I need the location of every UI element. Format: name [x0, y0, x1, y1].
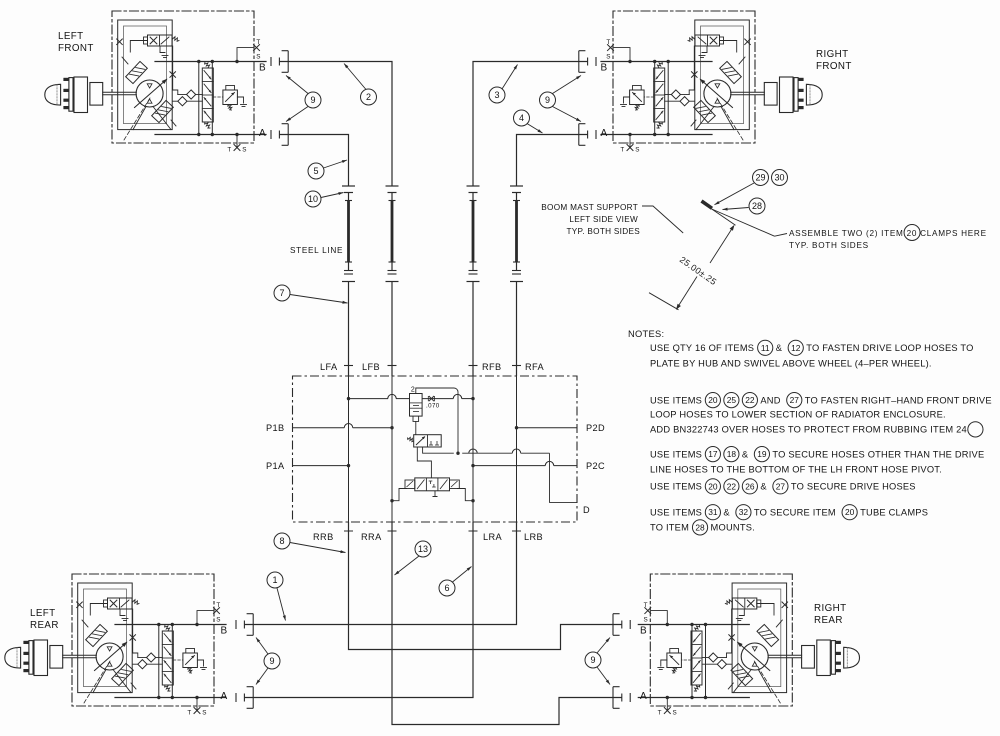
svg-text:A: A [259, 128, 266, 139]
svg-text:S: S [606, 54, 611, 61]
svg-text:TO ITEM: TO ITEM [650, 523, 689, 533]
main directional spool valve [415, 478, 450, 491]
svg-text:P1B: P1B [266, 423, 285, 433]
junction RFB charge [471, 397, 474, 400]
svg-text:USE ITEMS: USE ITEMS [650, 507, 702, 517]
svg-text:NOTES:: NOTES: [628, 329, 664, 339]
P2D line [517, 427, 578, 429]
svg-text:6: 6 [444, 583, 449, 593]
P1B line [293, 427, 345, 429]
callout 2 [361, 89, 377, 105]
steel line thick [347, 201, 350, 263]
svg-text:TO SECURE HOSES OTHER THAN THE: TO SECURE HOSES OTHER THAN THE DRIVE [772, 449, 984, 459]
callout 28 [749, 198, 765, 214]
svg-text:RRB: RRB [313, 532, 334, 542]
connector LF port B [271, 51, 288, 73]
svg-text:4: 4 [519, 113, 524, 123]
svg-text:LINE HOSES TO THE BOTTOM OF TH: LINE HOSES TO THE BOTTOM OF THE LH FRONT… [650, 464, 942, 474]
svg-text:27: 27 [790, 395, 800, 405]
LRA route to LR port A [245, 522, 473, 698]
svg-text:3: 3 [494, 90, 499, 100]
svg-text:B: B [221, 626, 228, 637]
svg-text:9: 9 [310, 95, 315, 105]
drop from pilot valve to main spool [417, 447, 431, 478]
callout 8 [274, 533, 290, 549]
hose LF-B to LFB drop [279, 62, 392, 187]
svg-text:FRONT: FRONT [58, 43, 94, 54]
svg-text:.070: .070 [426, 403, 440, 410]
svg-text:RIGHT: RIGHT [814, 603, 846, 614]
svg-text:TUBE CLAMPS: TUBE CLAMPS [860, 507, 928, 517]
hose LF-A to LFA drop [279, 135, 348, 187]
mast mark thick stroke [702, 201, 713, 208]
loop line from cartridge top [416, 388, 454, 394]
svg-text:S: S [672, 710, 677, 717]
svg-text:TO FASTEN DRIVE LOOP HOSES TO: TO FASTEN DRIVE LOOP HOSES TO [806, 343, 973, 353]
svg-text:T: T [644, 602, 648, 609]
RIGHT FRONT wheel drive assembly (mirrored) [601, 11, 822, 151]
svg-text:S: S [635, 147, 640, 154]
pilot shift valve [414, 435, 442, 447]
svg-text:LEFT: LEFT [30, 608, 56, 619]
RRA route to RR port A [392, 522, 622, 725]
steel line column LFB [386, 185, 399, 187]
callout 30 [772, 170, 788, 186]
svg-text:32: 32 [739, 507, 749, 517]
callout 10 [305, 191, 321, 207]
svg-text:26: 26 [745, 481, 755, 491]
callout 1 [267, 572, 283, 588]
svg-text:8: 8 [279, 536, 284, 546]
svg-text:2: 2 [411, 387, 415, 394]
P1A line [293, 465, 349, 467]
solenoid cartridge valve [410, 394, 423, 417]
svg-text:11: 11 [761, 343, 770, 353]
svg-text:25: 25 [727, 395, 737, 405]
spool solenoid right [450, 480, 460, 489]
svg-text:RIGHT: RIGHT [816, 49, 848, 60]
svg-text:LFA: LFA [320, 362, 338, 372]
svg-text:STEEL LINE: STEEL LINE [290, 246, 343, 255]
central manifold dashed block [293, 376, 578, 522]
dimension 25.00 [710, 226, 734, 263]
svg-text:AND: AND [760, 395, 780, 405]
svg-text:P1A: P1A [266, 461, 285, 471]
svg-text:2: 2 [366, 92, 371, 102]
svg-text:5: 5 [313, 166, 318, 176]
svg-text:T: T [216, 602, 220, 609]
svg-text:TO FASTEN RIGHT–HAND FRONT DRI: TO FASTEN RIGHT–HAND FRONT DRIVE [805, 395, 992, 405]
svg-text:ASSEMBLE TWO (2) ITEM 20 CLAMP: ASSEMBLE TWO (2) ITEM 20 CLAMPS HERE [789, 229, 987, 238]
svg-text:T: T [256, 39, 260, 46]
svg-text:20: 20 [708, 481, 718, 491]
svg-text:29: 29 [755, 173, 765, 183]
connector RF port A [579, 124, 596, 146]
junction LFA charge [347, 397, 350, 400]
svg-text:27: 27 [776, 481, 786, 491]
steel line column LFA [342, 185, 355, 187]
svg-text:A: A [640, 691, 647, 702]
callout 7 [274, 285, 290, 301]
LEFT REAR wheel drive assembly [5, 574, 226, 714]
hose RF-A to RFA drop [517, 135, 588, 187]
svg-text:S: S [242, 147, 247, 154]
svg-text:12: 12 [791, 343, 801, 353]
svg-text:&: & [723, 507, 730, 517]
svg-text:REAR: REAR [30, 620, 59, 631]
callout 5 [308, 163, 324, 179]
svg-text:&: & [742, 449, 749, 459]
svg-text:28: 28 [752, 201, 762, 211]
callout 13 [415, 541, 431, 557]
dimension extension tick [649, 293, 679, 310]
charge line top horizontal [349, 398, 389, 400]
svg-text:TO SECURE DRIVE HOSES: TO SECURE DRIVE HOSES [791, 482, 916, 492]
svg-text:USE ITEMS: USE ITEMS [650, 482, 702, 492]
svg-text:PLATE BY HUB AND SWIVEL ABOVE: PLATE BY HUB AND SWIVEL ABOVE WHEEL (4–P… [650, 358, 932, 368]
svg-text:LEFT: LEFT [58, 31, 84, 42]
svg-text:T: T [620, 147, 624, 154]
LRB route to LR port B [245, 522, 517, 625]
svg-text:TO SECURE ITEM: TO SECURE ITEM [754, 507, 836, 517]
callout 29 [753, 170, 769, 186]
svg-text:&: & [760, 482, 767, 492]
svg-text:LRA: LRA [483, 532, 503, 542]
svg-text:1: 1 [272, 575, 277, 585]
spool solenoid left [405, 480, 415, 489]
connector RR port B [613, 614, 630, 636]
svg-text:28: 28 [695, 522, 705, 532]
svg-text:19: 19 [757, 449, 767, 459]
mast chevron lines [712, 209, 736, 225]
svg-text:LEFT SIDE VIEW: LEFT SIDE VIEW [569, 215, 638, 224]
svg-text:MOUNTS.: MOUNTS. [711, 523, 755, 533]
svg-text:T: T [658, 710, 662, 717]
RRB route to RR port B [349, 522, 622, 650]
svg-text:RFA: RFA [525, 362, 545, 372]
RIGHT REAR wheel drive assembly (mirrored) [638, 574, 859, 714]
svg-text:P2D: P2D [586, 423, 605, 433]
svg-text:9: 9 [545, 95, 550, 105]
svg-text:13: 13 [418, 544, 428, 554]
line LFB-RRA through block [391, 376, 393, 522]
svg-text:22: 22 [727, 481, 737, 491]
svg-text:9: 9 [269, 656, 274, 666]
callout 9 LF [305, 92, 321, 108]
svg-text:RRA: RRA [361, 532, 382, 542]
svg-text:S: S [256, 54, 261, 61]
svg-text:S: S [643, 617, 648, 624]
steel line column RFB [467, 185, 480, 187]
line RFA-LRB through block [516, 376, 518, 522]
svg-text:B: B [601, 63, 608, 74]
svg-text:LRB: LRB [524, 532, 543, 542]
svg-text:T: T [227, 147, 231, 154]
leader from BOOM MAST label [642, 206, 683, 233]
spool pilot drops [392, 489, 407, 501]
callout 9 LR [264, 653, 280, 669]
svg-text:17: 17 [708, 449, 718, 459]
svg-text:&: & [776, 343, 783, 353]
LEFT FRONT wheel drive assembly [45, 11, 266, 151]
pilot valve spring [408, 437, 414, 441]
steel line thick [515, 201, 518, 263]
svg-text:LOOP HOSES TO LOWER SECTION OF: LOOP HOSES TO LOWER SECTION OF RADIATOR … [650, 409, 946, 419]
svg-text:P2C: P2C [586, 461, 605, 471]
svg-text:ADD BN322743 OVER HOSES TO PRO: ADD BN322743 OVER HOSES TO PROTECT FROM … [650, 425, 967, 435]
svg-text:T: T [187, 710, 191, 717]
callout 3 [489, 87, 505, 103]
connector RR port A [613, 687, 630, 709]
line LFA-RRB through block [348, 376, 350, 522]
svg-text:TYP. BOTH SIDES: TYP. BOTH SIDES [789, 241, 869, 250]
svg-text:10: 10 [308, 194, 318, 204]
svg-text:RFB: RFB [482, 362, 502, 372]
stem cartridge to pilot valve [415, 421, 417, 434]
connector LR port B [236, 614, 253, 636]
junction loop to pilot line [456, 452, 459, 455]
spool center drain stub [434, 491, 436, 497]
svg-text:USE ITEMS: USE ITEMS [650, 449, 702, 459]
svg-text:20: 20 [845, 507, 855, 517]
P2C line [473, 465, 545, 467]
pilot feed line to D [423, 447, 454, 453]
svg-text:USE ITEMS: USE ITEMS [650, 395, 702, 405]
svg-text:TYP. BOTH SIDES: TYP. BOTH SIDES [566, 227, 640, 236]
callout 9 RF [540, 92, 556, 108]
steel line thick [472, 201, 475, 263]
steel line thick [391, 201, 394, 263]
svg-text:31: 31 [708, 507, 718, 517]
svg-text:22: 22 [745, 395, 755, 405]
svg-text:A: A [601, 128, 608, 139]
hose RF-B to RFB drop [473, 62, 588, 187]
svg-text:9: 9 [590, 655, 595, 665]
svg-text:7: 7 [279, 288, 284, 298]
callout 4 [514, 110, 530, 126]
line to D port [550, 453, 578, 502]
svg-text:D: D [583, 505, 590, 515]
callout 9 RR [585, 652, 601, 668]
svg-text:BOOM MAST SUPPORT: BOOM MAST SUPPORT [541, 203, 638, 212]
svg-text:B: B [640, 626, 647, 637]
svg-text:B: B [259, 63, 266, 74]
svg-text:LFB: LFB [362, 362, 380, 372]
connector LR port A [236, 687, 253, 709]
svg-text:A: A [221, 691, 228, 702]
connector LF port A [271, 124, 288, 146]
svg-text:S: S [216, 617, 221, 624]
block exit ticks [344, 530, 353, 532]
circle around item 20 [904, 225, 920, 241]
line RFB-LRA through block [472, 376, 474, 522]
svg-text:FRONT: FRONT [816, 61, 852, 72]
orifice X [429, 396, 434, 401]
connector RF port B [579, 51, 596, 73]
svg-text:30: 30 [774, 173, 784, 183]
svg-text:18: 18 [727, 449, 737, 459]
svg-text:REAR: REAR [814, 615, 843, 626]
svg-text:T: T [606, 39, 610, 46]
callout 6 [439, 580, 455, 596]
svg-text:USE QTY 16 OF ITEMS: USE QTY 16 OF ITEMS [650, 343, 754, 353]
steel line column RFA [510, 185, 523, 187]
svg-text:20: 20 [708, 395, 718, 405]
svg-text:S: S [202, 710, 207, 717]
